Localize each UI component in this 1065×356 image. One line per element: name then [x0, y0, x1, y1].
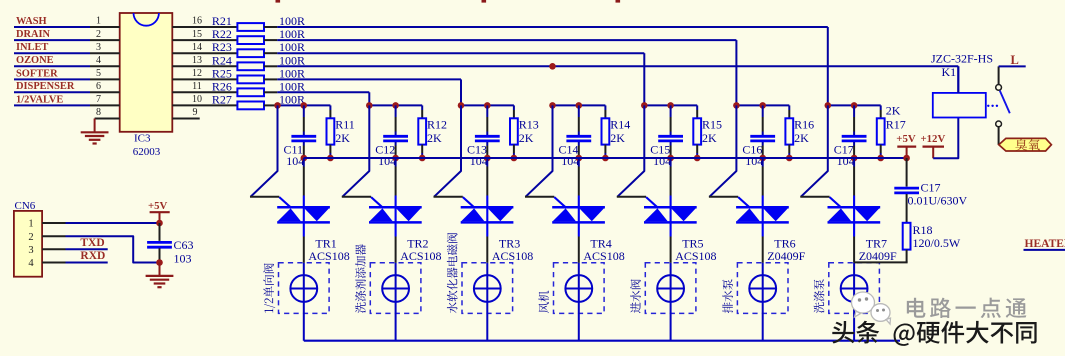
resistor R16 top lead [788, 105, 790, 110]
svg-text:100R: 100R [279, 40, 305, 54]
load 6 wire through motor [762, 263, 764, 341]
load motor symbol 4 [565, 275, 592, 302]
triac TR1 gate wire [251, 105, 278, 196]
capacitor C17 snubber 0.01U/630V [894, 187, 919, 190]
wire CN6 pin2 to ground [66, 236, 160, 262]
resistor R25 [237, 76, 264, 84]
load 1 name label [263, 263, 275, 312]
resistor R21 right lead [264, 26, 277, 28]
triac TR3 MT1 lead [486, 237, 488, 263]
resistor R21 [237, 23, 264, 31]
load 2 wire through motor [395, 263, 397, 341]
svg-text:100R: 100R [279, 14, 305, 28]
load 3 name label [447, 233, 458, 313]
load 3 dashed box [462, 263, 513, 314]
IC3 pin 3 lead [90, 52, 120, 54]
resistor R14 bottom lead [604, 145, 606, 153]
resistor R15 [693, 118, 701, 144]
svg-text:2K: 2K [427, 131, 442, 145]
svg-text:DISPENSER: DISPENSER [16, 81, 75, 92]
svg-text:2K: 2K [335, 131, 350, 145]
resistor R12 [418, 118, 426, 144]
svg-text:2K: 2K [519, 131, 534, 145]
watermark text 头条 @硬件大不同 [832, 321, 1036, 346]
capacitor C12 bottom lead [395, 142, 397, 146]
ground at C63 [159, 263, 161, 276]
IC3 pin 12 lead [172, 78, 237, 80]
svg-text:4: 4 [96, 55, 101, 66]
triac TR3 gate wire [434, 105, 461, 196]
CN6 pin 3 lead [42, 248, 65, 250]
IC3 pin 16 lead [172, 26, 237, 28]
svg-text:ACS108: ACS108 [492, 249, 533, 263]
resistor R11 [327, 118, 335, 144]
svg-text:R14: R14 [610, 118, 630, 132]
resistor R27 right lead [264, 104, 277, 106]
capacitor C11 bottom lead [303, 142, 305, 146]
node gate junction TR2 [366, 102, 373, 109]
resistor R14 top lead [604, 105, 606, 110]
capacitor C17 bottom lead [853, 142, 855, 146]
svg-text:C63: C63 [174, 238, 194, 252]
triac TR2 MT2 lead [395, 158, 397, 167]
CN6 pin 1 lead [42, 222, 65, 224]
IC3 pin 8 lead [95, 118, 120, 120]
svg-text:HEATER: HEATER [1025, 238, 1065, 250]
resistor R12 top lead [421, 105, 423, 110]
triac TR7 gate wire [801, 105, 828, 196]
resistor R11 top lead [329, 105, 331, 110]
relay K1 switch output lead [998, 127, 1000, 145]
svg-text:+5V: +5V [148, 200, 168, 212]
node snubber junction C17 [851, 155, 858, 162]
capacitor C14 [566, 135, 591, 138]
IC3 pin 7 lead [90, 104, 120, 106]
svg-text:R26: R26 [212, 79, 232, 93]
IC3 pin 11 lead [172, 91, 237, 93]
triac TR5 gate wire [617, 105, 644, 196]
node snubber junction C16 [759, 155, 766, 162]
relay K1 switch contact circles [996, 85, 1002, 91]
IC3 pin 14 lead [172, 52, 237, 54]
triac TR6 MT2 lead [762, 158, 764, 167]
load 1 wire through motor [303, 263, 305, 341]
svg-text:1/2VALVE: 1/2VALVE [16, 94, 63, 105]
triac TR7 MT2 lead [853, 158, 855, 167]
triac TR6 [736, 206, 789, 209]
resistor R22 right lead [264, 39, 277, 41]
svg-text:SOFTER: SOFTER [16, 68, 58, 79]
capacitor C63 top lead [159, 223, 161, 241]
svg-text:0.01U/630V: 0.01U/630V [908, 194, 968, 208]
svg-text:R16: R16 [794, 118, 814, 132]
load motor symbol 3 [474, 275, 501, 302]
wire CN6 pin3 TXD [66, 248, 108, 250]
svg-text:9: 9 [193, 107, 198, 118]
load 1 dashed box [279, 263, 330, 314]
svg-text:2K: 2K [702, 131, 717, 145]
triac TR6 gate wire [709, 105, 736, 196]
resistor R24 right lead [264, 65, 277, 67]
resistor R25 right lead [264, 78, 277, 80]
watermark text 电路一点通 [907, 298, 1027, 318]
wire drop to channel gate [368, 92, 370, 105]
svg-text:103: 103 [174, 251, 192, 265]
wire input SOFTER [14, 78, 90, 80]
wire OZONE row down to relay K1 [957, 66, 959, 93]
IC3 notch [134, 13, 159, 26]
load 6 dashed box [737, 263, 788, 314]
ground at IC3 pin 8 [94, 119, 96, 132]
triac TR1 [277, 206, 330, 209]
wire drop to channel gate [735, 40, 737, 105]
junction OZONE to TR4 gate [549, 63, 556, 70]
CN6 pin 4 lead [42, 262, 65, 264]
wire from R21 to channel [277, 26, 828, 28]
triac TR4 MT1 lead [578, 237, 580, 263]
svg-text:R11: R11 [335, 118, 355, 132]
svg-text:14: 14 [192, 42, 202, 53]
capacitor C12 [383, 135, 408, 138]
watermark wechat logo [852, 292, 891, 324]
wire +12V to relay coil [933, 118, 958, 159]
wire from R25 to channel [277, 78, 461, 80]
CN6 pin 2 lead [42, 235, 65, 237]
wire HEATER [1024, 249, 1065, 251]
cropped title text remnants [276, 0, 281, 3]
svg-text:1: 1 [96, 16, 101, 27]
load common bus wire [304, 340, 900, 342]
svg-text:C17: C17 [921, 180, 941, 194]
svg-text:3: 3 [28, 245, 33, 256]
load 5 name label [630, 279, 641, 313]
capacitor C17 [842, 135, 867, 138]
svg-text:7: 7 [96, 94, 101, 105]
svg-text:8: 8 [96, 107, 101, 118]
svg-text:2: 2 [28, 232, 33, 243]
svg-text:62003: 62003 [133, 146, 161, 158]
svg-text:Z0409F: Z0409F [859, 249, 897, 263]
svg-text:2K: 2K [610, 131, 625, 145]
triac TR7 [828, 206, 881, 209]
IC3 pin 1 lead [90, 26, 120, 28]
resistor R16 [785, 118, 793, 144]
load 7 dashed box [829, 263, 880, 314]
svg-text:2K: 2K [886, 104, 901, 118]
svg-text:Z0409F: Z0409F [767, 249, 805, 263]
svg-text:13: 13 [192, 55, 202, 66]
capacitor C16 [750, 135, 775, 138]
node gate junction TR5 [641, 102, 648, 109]
triac TR1 MT2 lead [303, 158, 305, 167]
IC3 pin 10 lead [172, 104, 237, 106]
wire channel 4 gate bus [553, 104, 606, 106]
node +5V C63 [156, 220, 163, 227]
resistor R15 top lead [696, 105, 698, 110]
resistor R17 [877, 118, 885, 144]
svg-text:DRAIN: DRAIN [16, 29, 51, 40]
svg-text:10: 10 [192, 94, 202, 105]
relay K1 coil top lead [957, 66, 959, 93]
svg-text:TXD: TXD [80, 237, 104, 249]
wire drop to channel gate [643, 53, 645, 105]
resistor R12 bottom lead [421, 145, 423, 153]
capacitor C14 bottom lead [578, 142, 580, 146]
wire R27 to TR1 gate network [277, 104, 330, 106]
load 7 wire through motor [853, 263, 855, 341]
resistor R22 [237, 36, 264, 44]
load motor symbol 6 [749, 275, 776, 302]
wire input OZONE [14, 65, 90, 67]
svg-text:11: 11 [192, 81, 202, 92]
svg-text:5: 5 [96, 68, 101, 79]
triac TR6 MT1 lead [762, 237, 764, 263]
load motor symbol 2 [382, 275, 409, 302]
triac TR2 gate wire [342, 105, 369, 196]
node snubber junction C14 [576, 155, 583, 162]
resistor R23 right lead [264, 52, 277, 54]
wire drop to channel gate [460, 79, 462, 105]
svg-text:100R: 100R [279, 79, 305, 93]
svg-text:15: 15 [192, 29, 202, 40]
wire channel 6 gate bus [736, 104, 789, 106]
IC3 pin 6 lead [90, 91, 120, 93]
capacitor C17 snubber top lead [906, 158, 908, 187]
triac TR7 MT1 lead [853, 237, 855, 263]
triac TR3 MT2 lead [486, 158, 488, 167]
node gate junction TR3 [458, 102, 465, 109]
svg-text:100R: 100R [279, 27, 305, 41]
resistor R11 bottom lead [329, 145, 331, 153]
resistor R24 [237, 62, 264, 70]
IC3 pin 13 lead [172, 65, 237, 67]
capacitor C15 bottom lead [670, 142, 672, 146]
load 3 wire through motor [486, 263, 488, 341]
node +5V junction [903, 155, 910, 162]
load motor symbol 7 [841, 275, 868, 302]
svg-text:R13: R13 [519, 118, 539, 132]
IC3 pin 2 lead [90, 39, 120, 41]
relay K1 switch blade [1000, 91, 1010, 114]
resistor R18 bottom lead [906, 250, 908, 263]
wire from R26 to channel [277, 91, 369, 93]
svg-text:JZC-32F-HS: JZC-32F-HS [931, 52, 993, 66]
load motor symbol 1 [290, 275, 317, 302]
node gate junction TR1 [274, 102, 281, 109]
IC3 pin 15 lead [172, 39, 237, 41]
svg-text:R15: R15 [702, 118, 722, 132]
wire L stub [999, 65, 1026, 67]
capacitor C11 [291, 135, 316, 138]
capacitor C13 bottom lead [486, 142, 488, 146]
svg-text:120/0.5W: 120/0.5W [913, 236, 961, 250]
resistor R23 [237, 49, 264, 57]
svg-text:WASH: WASH [16, 16, 47, 27]
svg-text:ACS108: ACS108 [308, 249, 349, 263]
capacitor C13 [475, 135, 500, 138]
triac TR3 [461, 206, 514, 209]
wire input DISPENSER [14, 91, 90, 93]
svg-text:ACS108: ACS108 [583, 249, 624, 263]
relay K1 switch common lead [998, 66, 1000, 84]
connector CN6 body [14, 211, 42, 277]
resistor R17 bottom lead [880, 145, 882, 153]
svg-text:16: 16 [192, 16, 202, 27]
wire R18 to TR7 output [854, 261, 908, 263]
svg-text:R17: R17 [886, 117, 906, 131]
capacitor C11 top lead [303, 105, 305, 117]
node snubber junction C12 [392, 155, 399, 162]
wire from R23 to channel [277, 52, 644, 54]
wire channel 7 gate bus [828, 104, 881, 106]
svg-text:100R: 100R [279, 53, 305, 67]
capacitor C14 top lead [578, 105, 580, 117]
node gate junction TR4 [549, 102, 556, 109]
load 6 name label [722, 279, 733, 313]
wire CN6 pin1 to +5V [66, 222, 160, 224]
resistor R18 [903, 223, 911, 250]
load 5 dashed box [645, 263, 696, 314]
load 2 dashed box [370, 263, 421, 314]
capacitor C16 bottom lead [762, 142, 764, 146]
svg-text:4: 4 [28, 258, 34, 269]
svg-text:R25: R25 [212, 66, 232, 80]
triac TR4 MT2 lead [578, 158, 580, 167]
wire input DRAIN [14, 39, 90, 41]
wire from R24 to channel [277, 65, 958, 67]
load 4 dashed box [554, 263, 605, 314]
svg-text:+5V: +5V [896, 133, 916, 145]
svg-text:R18: R18 [913, 223, 933, 237]
triac TR2 [369, 206, 422, 209]
triac TR4 gate wire [526, 105, 553, 196]
load 7 name label [814, 279, 825, 313]
resistor R26 [237, 88, 264, 96]
svg-text:1: 1 [28, 219, 33, 230]
resistor R27 [237, 102, 264, 110]
load 2 name label [355, 244, 366, 313]
wire channel 2 gate bus [369, 104, 422, 106]
triac TR1 MT1 lead [303, 237, 305, 263]
wire channel 5 gate bus [644, 104, 697, 106]
svg-text:R12: R12 [427, 118, 447, 132]
load 5 wire through motor [670, 263, 672, 341]
wire input WASH [14, 26, 90, 28]
resistor R13 top lead [513, 105, 515, 110]
resistor R13 [510, 118, 518, 144]
wire channel 3 gate bus [461, 104, 514, 106]
resistor R13 bottom lead [513, 145, 515, 153]
IC3 pin 4 lead [90, 65, 120, 67]
load motor symbol 5 [657, 275, 684, 302]
wire input INLET [14, 52, 90, 54]
node snubber junction C11 [301, 155, 308, 162]
capacitor C16 top lead [762, 105, 764, 117]
snubber bus wire +5V [304, 157, 907, 159]
relay K1 coil [933, 93, 986, 118]
resistor R14 [602, 118, 610, 144]
triac TR5 MT2 lead [670, 158, 672, 167]
resistor R17 top lead [880, 105, 882, 110]
svg-text:ACS108: ACS108 [675, 249, 716, 263]
IC3 pin 5 lead [90, 78, 120, 80]
relay K1 mechanical link dots [987, 105, 989, 107]
svg-text:R27: R27 [212, 92, 232, 106]
wire C17 to R18 [906, 194, 908, 223]
capacitor C63 [147, 241, 172, 244]
triac TR5 MT1 lead [670, 237, 672, 263]
capacitor C13 top lead [486, 105, 488, 117]
capacitor C63 bottom lead [159, 248, 161, 262]
triac TR2 MT1 lead [395, 237, 397, 263]
svg-text:L: L [1011, 53, 1019, 67]
svg-text:3: 3 [96, 42, 101, 53]
IC U1 62003 body [120, 13, 173, 132]
node gate junction TR7 [825, 102, 832, 109]
wire input 1/2VALVE [14, 104, 90, 106]
net flag ozone 臭氧 [999, 138, 1052, 151]
svg-text:IC3: IC3 [134, 132, 151, 144]
svg-text:OZONE: OZONE [16, 55, 54, 66]
svg-text:12: 12 [192, 68, 202, 79]
svg-text:100R: 100R [279, 66, 305, 80]
svg-text:R21: R21 [212, 14, 232, 28]
IC3 pin 9 lead [172, 118, 199, 120]
svg-text:R24: R24 [212, 53, 232, 67]
wire CN6 pin4 RXD [66, 262, 108, 264]
triac TR5 [644, 206, 697, 209]
svg-text:ACS108: ACS108 [400, 249, 441, 263]
load 4 wire through motor [578, 263, 580, 341]
triac TR4 [552, 206, 605, 209]
svg-text:RXD: RXD [80, 250, 105, 262]
resistor R16 bottom lead [788, 145, 790, 153]
wire from R22 to channel [277, 39, 736, 41]
node gate junction TR6 [733, 102, 740, 109]
capacitor C15 top lead [670, 105, 672, 117]
svg-text:INLET: INLET [16, 42, 48, 53]
svg-text:6: 6 [96, 81, 101, 92]
capacitor C17 top lead [853, 105, 855, 117]
svg-text:R22: R22 [212, 27, 232, 41]
node ground junction [156, 259, 163, 266]
wire drop to channel gate [827, 27, 829, 105]
svg-text:K1: K1 [942, 65, 957, 79]
capacitor C12 top lead [395, 105, 397, 117]
resistor R26 right lead [264, 91, 277, 93]
node snubber junction C13 [484, 155, 491, 162]
svg-text:2: 2 [96, 29, 101, 40]
svg-text:+12V: +12V [921, 133, 946, 145]
svg-text:R23: R23 [212, 40, 232, 54]
node snubber junction C15 [667, 155, 674, 162]
resistor R15 bottom lead [696, 145, 698, 153]
load 4 name label [538, 291, 549, 313]
capacitor C15 [658, 135, 683, 138]
svg-text:2K: 2K [794, 131, 809, 145]
